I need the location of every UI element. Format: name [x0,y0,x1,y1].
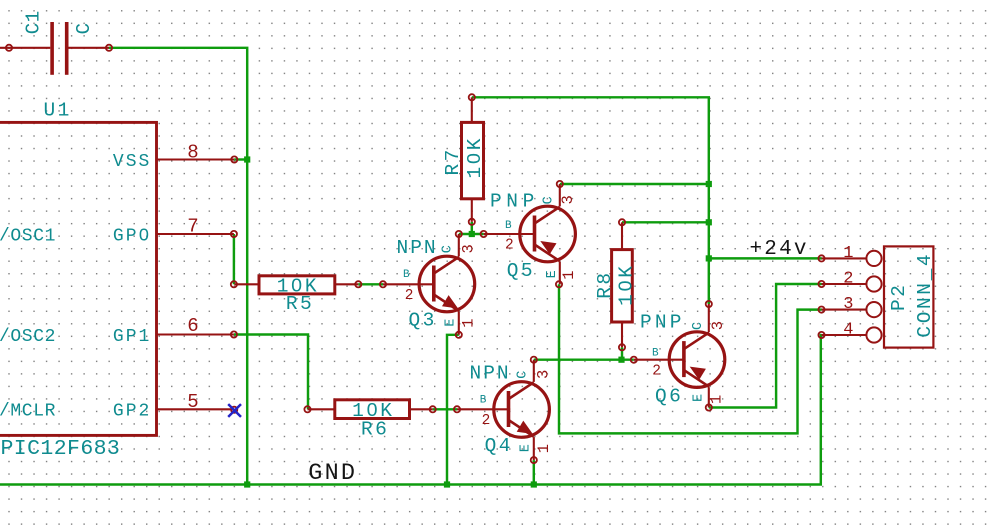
svg-text:Q4: Q4 [485,435,513,457]
svg-text:GP2: GP2 [113,402,151,422]
svg-text:R6: R6 [361,418,389,440]
svg-text:2: 2 [405,288,414,304]
svg-text:4: 4 [843,320,853,339]
svg-text:2: 2 [843,269,853,288]
svg-text:C: C [515,371,530,379]
svg-text:1: 1 [560,270,578,279]
svg-text:3: 3 [559,195,577,204]
svg-text:B: B [652,347,659,359]
svg-text:3: 3 [843,295,853,314]
svg-text:R5: R5 [286,293,314,315]
svg-text:NPN: NPN [470,363,511,385]
svg-text:E: E [444,319,459,327]
svg-text:PNP: PNP [490,190,539,212]
svg-text:CONN_4: CONN_4 [914,252,936,338]
svg-text:C: C [691,322,706,330]
svg-text:3: 3 [534,370,552,379]
svg-text:C: C [73,22,95,34]
svg-text:B: B [505,220,512,232]
svg-text:8: 8 [187,141,198,163]
svg-text:2: 2 [482,413,491,429]
svg-text:NPN: NPN [397,237,438,259]
svg-text:C: C [440,245,455,253]
svg-text:5: 5 [187,391,198,413]
svg-text:Q6: Q6 [655,385,683,407]
svg-text:E: E [691,394,706,402]
svg-text:Q5: Q5 [507,260,535,282]
svg-text:+24v: +24v [750,238,809,261]
svg-text:U1: U1 [44,100,72,122]
svg-text:1: 1 [843,244,853,263]
svg-text:P2: P2 [888,283,910,311]
svg-text:B: B [403,269,410,281]
svg-text:6: 6 [187,315,198,337]
svg-text:2: 2 [652,363,661,379]
svg-text:VSS: VSS [113,152,151,172]
svg-text:C1: C1 [23,10,45,34]
svg-text:R8: R8 [594,270,616,298]
svg-text:/OSC2: /OSC2 [0,327,56,347]
svg-text:1: 1 [459,318,477,327]
svg-text:/OSC1: /OSC1 [0,226,56,246]
svg-text:PIC12F683: PIC12F683 [1,437,121,461]
svg-text:E: E [545,270,560,278]
svg-text:GP1: GP1 [113,327,151,347]
svg-text:B: B [480,394,487,406]
svg-text:C: C [542,196,557,204]
svg-text:R7: R7 [442,147,464,175]
svg-text:2: 2 [505,238,514,254]
svg-text:3: 3 [709,321,727,330]
svg-text:GND: GND [308,460,357,487]
svg-text:E: E [519,444,534,452]
svg-text:Q3: Q3 [409,309,437,331]
svg-text:1: 1 [535,444,553,453]
svg-text:1: 1 [707,395,725,404]
svg-text:7: 7 [187,216,198,238]
svg-text:3: 3 [459,244,477,253]
svg-text:PNP: PNP [640,311,685,333]
svg-text:/MCLR: /MCLR [0,402,56,422]
